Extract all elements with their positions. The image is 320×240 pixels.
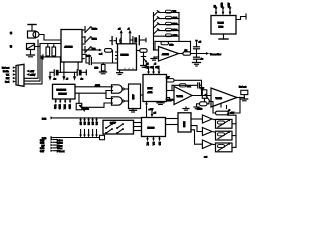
wire TX: [24, 44, 40, 82]
svg-text:13k1: 13k1: [173, 17, 179, 19]
wire: [82, 103, 113, 107]
resistor R12 4.7k: [166, 77, 174, 82]
connector stub: [100, 135, 105, 139]
wire: [179, 53, 184, 55]
svg-text:4061: 4061: [95, 85, 101, 87]
relay K1: [216, 119, 233, 128]
IC U2: [118, 44, 137, 70]
wire: [134, 126, 142, 128]
svg-text:D4B: D4B: [42, 118, 47, 120]
wire: [141, 94, 144, 96]
svg-text:56k0: 56k0: [173, 23, 179, 25]
switch S1b: [85, 37, 97, 43]
resistor R14 270k: [197, 102, 207, 111]
stub row b: [40, 141, 63, 145]
drop column 1: [79, 118, 82, 138]
switch S2d: [154, 29, 160, 34]
row wire 4: [159, 30, 179, 32]
ground: [193, 63, 201, 67]
wire: [212, 131, 216, 134]
pin wire U1: [63, 62, 65, 76]
wire: [229, 98, 241, 114]
supply marks: [146, 64, 157, 66]
svg-text:Transmitter: Transmitter: [210, 53, 221, 56]
wire row2: [54, 137, 100, 139]
junction: [239, 97, 241, 99]
drop column 2: [83, 118, 86, 138]
arrow: [206, 52, 209, 55]
pin labels above U6: [144, 66, 158, 68]
wire: [124, 88, 128, 90]
DIP switch S3: [103, 120, 134, 134]
buffer A1: [202, 115, 212, 123]
wire: [204, 98, 206, 102]
op2 power stubs: [221, 104, 231, 113]
wire: [43, 56, 60, 58]
wire: [154, 49, 159, 51]
wire: [232, 123, 236, 125]
wire: [50, 71, 54, 73]
stub row a: [40, 138, 63, 142]
IC U8: [178, 113, 191, 132]
svg-text:REG: REG: [219, 27, 224, 29]
U7 supply arrow: [151, 111, 157, 118]
IC U5 78L05: [211, 16, 236, 35]
U2 bottom pin marks: [125, 68, 133, 69]
relay K2: [216, 131, 233, 140]
resistor R15: [216, 111, 229, 115]
capacitor C8: [194, 40, 202, 54]
relay K3: [216, 143, 233, 152]
wire: [92, 62, 117, 64]
wire: [134, 122, 142, 124]
feedback wire 2: [172, 84, 197, 86]
wire: [82, 71, 87, 73]
wire: [154, 41, 156, 50]
junction: [196, 53, 198, 55]
svg-text:56k4: 56k4: [173, 29, 179, 31]
capacitor plate: [85, 70, 87, 75]
wire: [211, 102, 216, 114]
wire: [167, 90, 175, 92]
resistor R2: [52, 44, 56, 57]
svg-text:HC240: HC240: [148, 128, 156, 130]
buffer A2: [202, 128, 212, 136]
svg-text:Ref in: Ref in: [83, 108, 89, 110]
wire: [59, 71, 66, 73]
ground: [130, 109, 137, 113]
microphone MK1: [28, 25, 40, 39]
tick: [245, 14, 247, 19]
node pins to U6: [147, 65, 161, 74]
wire: [66, 71, 77, 73]
supply arrow +5V: [227, 111, 235, 115]
stub row c: [42, 144, 64, 148]
svg-text:N14C89: N14C89: [59, 93, 68, 95]
resistor R4 270: [95, 63, 106, 72]
wire: [166, 124, 179, 126]
op-amp U10 TL072a: [174, 87, 192, 105]
svg-text:Ref in: Ref in: [3, 71, 9, 73]
wire: [154, 56, 159, 58]
resistor R8: [166, 28, 179, 31]
supply pin -5V U2b: [128, 28, 132, 43]
resistor R1: [46, 44, 50, 57]
ground: [157, 102, 164, 105]
svg-text:GND: GND: [222, 2, 224, 7]
wire: [171, 85, 173, 90]
pin labels J1: [2, 66, 16, 83]
IC U4 buffer box: [129, 84, 141, 109]
svg-text:Ref out: Ref out: [2, 67, 9, 70]
op-amp U9 AD548: [159, 47, 179, 62]
wire: [201, 85, 203, 95]
svg-text:LM1458: LM1458: [121, 54, 130, 56]
wire: [166, 118, 179, 120]
svg-text:C4B: C4B: [40, 140, 45, 142]
ground: [166, 98, 173, 102]
svg-text:4093: 4093: [132, 95, 134, 101]
svg-text:I/Ocu: I/Ocu: [57, 145, 63, 147]
IC U7: [142, 118, 166, 137]
label D4B row2: [42, 136, 54, 140]
row wire 5: [154, 35, 180, 37]
svg-text:DTR: DTR: [63, 105, 65, 110]
junction: [178, 84, 180, 86]
wire: [82, 54, 89, 63]
wire: [35, 44, 62, 47]
nand gate U4b: [112, 97, 125, 105]
wire: [167, 99, 175, 101]
supply arrow: [73, 72, 76, 81]
ground: [194, 107, 199, 109]
wire: [106, 91, 113, 94]
buffer A3: [202, 140, 212, 149]
row wire 3: [159, 24, 179, 26]
ground: [117, 70, 123, 75]
svg-text:RX: RX: [6, 78, 10, 80]
svg-text:C4B: C4B: [40, 148, 45, 150]
capacitor C2: [77, 70, 84, 81]
svg-text:In0ou: In0ou: [57, 143, 63, 145]
resistor R16: [137, 49, 148, 53]
capacitor C3: [86, 55, 91, 64]
svg-text:DS14C88: DS14C88: [57, 89, 67, 91]
svg-text:b): b): [10, 46, 12, 48]
ground: [219, 34, 228, 39]
feedback wire: [155, 40, 191, 42]
ground: [151, 57, 157, 60]
arrow: [99, 49, 102, 52]
label D4B row1: [42, 116, 54, 120]
wire: [212, 143, 216, 146]
svg-text:TL072: TL072: [216, 98, 223, 100]
pin ticks U2 left: [116, 52, 118, 59]
supply pin +5V U2a: [118, 28, 123, 43]
wire: [191, 118, 202, 120]
capacitor C10: [198, 83, 202, 88]
svg-text:+5V: +5V: [230, 113, 234, 115]
wire: [106, 93, 113, 98]
svg-text:C4T: C4T: [40, 151, 45, 153]
wire: [124, 100, 128, 102]
ground: [27, 50, 35, 57]
svg-text:+ 5V: + 5V: [149, 109, 154, 111]
row wire 2: [159, 18, 179, 20]
switch ladder bus: [153, 13, 155, 51]
pin stubs U1 right: [82, 30, 85, 59]
trimmer RV1: [76, 93, 89, 111]
capacitor C9: [194, 54, 204, 63]
svg-text:+15V: +15V: [30, 75, 36, 77]
ground: [41, 55, 43, 59]
nand gate U4a: [112, 85, 125, 93]
capacitor C1: [54, 70, 59, 81]
svg-text:RXD: RXD: [58, 105, 60, 110]
wire: [232, 146, 236, 148]
wire: [39, 35, 61, 41]
supply arrow: [48, 72, 51, 81]
IC U1: [61, 30, 82, 63]
switch S1c: [85, 47, 96, 53]
transistor Q1: [141, 52, 147, 65]
wire RX: [24, 40, 38, 78]
svg-text:TXD: TXD: [54, 105, 56, 110]
supply arrow: [62, 76, 68, 81]
resistor R5: [166, 10, 177, 13]
wire: [197, 104, 200, 107]
row wire 1: [159, 12, 179, 14]
resistor R9: [166, 34, 179, 37]
ladder right bus: [178, 13, 180, 42]
resistor R7: [166, 22, 179, 25]
switch S2b: [154, 17, 160, 23]
capacitor C7: [130, 36, 146, 45]
wire: [212, 118, 216, 121]
svg-text:AD548: AD548: [162, 53, 169, 56]
svg-text:TL072: TL072: [177, 96, 184, 98]
svg-text:14k2: 14k2: [173, 35, 179, 37]
wire GND: [24, 57, 42, 84]
plug P1: [241, 90, 248, 101]
svg-text:Ref out: Ref out: [239, 86, 246, 89]
svg-text:C4B: C4B: [40, 143, 45, 145]
resistor R3 6.8k: [99, 49, 112, 56]
svg-text:TPcu: TPcu: [57, 148, 63, 150]
wire: [190, 41, 192, 51]
supply bus: [228, 115, 236, 147]
switch S2a: [154, 11, 160, 17]
svg-text:78L05: 78L05: [218, 23, 225, 25]
switch S1a: [85, 27, 97, 33]
svg-text:out: out: [204, 156, 207, 159]
drop column 5: [95, 118, 98, 138]
supply pin U6: [145, 102, 154, 112]
microphone MK2: [27, 44, 35, 50]
svg-text:RTS: RTS: [68, 105, 70, 110]
svg-text:OUT: OUT: [229, 2, 231, 7]
wire: [191, 130, 202, 144]
svg-text:In0ou: In0ou: [57, 140, 63, 142]
svg-text:WP: WP: [201, 88, 205, 90]
wire: [134, 130, 142, 132]
ground: [141, 66, 147, 68]
svg-text:a): a): [10, 33, 12, 35]
wire: [85, 49, 99, 51]
svg-text:F Rand: F Rand: [57, 151, 65, 153]
power label +5V: [26, 70, 36, 77]
pin wire U1: [77, 62, 79, 70]
wire: [146, 106, 148, 117]
resistor R6: [166, 16, 179, 19]
svg-text:HC40: HC40: [183, 122, 185, 128]
wire row1: [54, 117, 142, 119]
IC U3: [53, 84, 76, 99]
svg-text:+5V: +5V: [30, 71, 34, 73]
resistor R10 27k: [161, 42, 174, 47]
wire: [75, 92, 106, 94]
op-amp U11 TL072b: [211, 88, 237, 107]
svg-text:4051: 4051: [148, 92, 154, 94]
wire: [111, 50, 114, 63]
resistor R13 47k: [180, 84, 192, 88]
IC U6: [143, 75, 167, 102]
wire: [75, 86, 113, 88]
wire: [59, 57, 61, 72]
wire: [192, 95, 211, 97]
U7 bottom pins: [146, 137, 161, 146]
svg-text:MAX: MAX: [148, 87, 153, 90]
svg-text:10k2: 10k2: [92, 39, 98, 41]
svg-text:CK: CK: [146, 142, 148, 146]
feedback wire: [174, 80, 202, 85]
wire: [207, 102, 211, 104]
resistor R11: [183, 52, 191, 55]
drop column 3: [87, 118, 90, 138]
switch S2c: [154, 23, 160, 29]
wire: [191, 126, 202, 132]
stub row e: [40, 150, 65, 154]
svg-text:RS: RS: [158, 142, 160, 146]
svg-text:DA: DA: [152, 142, 155, 146]
ground: [100, 72, 107, 74]
connector J1: [16, 64, 24, 86]
U3 bottom pins: [54, 99, 72, 110]
stub row d: [40, 147, 63, 151]
wire: [236, 17, 246, 20]
wire: [237, 97, 244, 99]
svg-text:AD7528: AD7528: [65, 46, 74, 49]
trimmer RV2 WP: [201, 88, 210, 101]
drop column 4: [91, 118, 94, 138]
U5 top pins: [215, 2, 232, 15]
wire: [232, 135, 236, 137]
capacitor C6: [110, 37, 121, 45]
ground: [183, 107, 189, 110]
wire: [191, 53, 207, 55]
